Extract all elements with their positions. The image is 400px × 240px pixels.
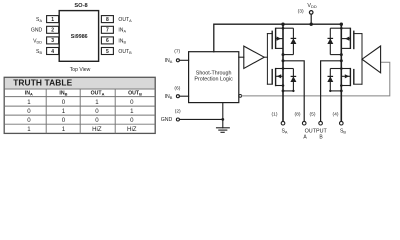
- svg-text:INA: INA: [165, 58, 173, 64]
- svg-text:Protection Logic: Protection Logic: [194, 77, 233, 83]
- node junction gnd: [221, 118, 224, 121]
- svg-text:Top View: Top View: [70, 67, 91, 73]
- wire VDD to rail: [310, 14, 312, 24]
- node junction A phase-diode: [282, 53, 285, 56]
- svg-text:8: 8: [106, 17, 109, 23]
- node GND terminal: [176, 118, 179, 121]
- node bubble box output B path: [239, 95, 242, 98]
- node junction rail-VDD: [310, 23, 313, 26]
- wire box to driver A: [239, 56, 244, 58]
- node junction B diode-bottom: [329, 90, 331, 92]
- row 2: [27, 108, 134, 115]
- package body U1 Si9986: [59, 11, 98, 62]
- wire B column: [340, 24, 342, 121]
- svg-text:(4): (4): [333, 111, 339, 117]
- node junction B source-bottom: [340, 90, 343, 93]
- svg-text:(7): (7): [174, 48, 180, 54]
- transistor Q4 n-channel B low side: [341, 68, 354, 86]
- node junction A ndrain-diode: [282, 67, 285, 70]
- svg-text:VDD: VDD: [307, 3, 316, 9]
- diode D3 body B high: [327, 28, 341, 54]
- wire A column: [282, 24, 284, 121]
- pin 7 box: [101, 26, 113, 33]
- title row gray background: [5, 78, 155, 88]
- transistor Q3 p-channel B high side: [341, 28, 354, 50]
- wire gate bus B: [361, 34, 363, 85]
- node junction rail-A: [281, 23, 284, 26]
- svg-text:OUTPUT: OUTPUT: [305, 129, 328, 135]
- wire A source bottom: [283, 90, 293, 92]
- node INB terminal: [176, 95, 179, 98]
- row 3: [27, 117, 134, 124]
- svg-text:7: 7: [106, 28, 109, 34]
- svg-text:0: 0: [95, 108, 99, 115]
- node junction rail-B: [340, 23, 343, 26]
- node junction B out-tap: [340, 59, 343, 62]
- svg-text:(6): (6): [174, 85, 180, 91]
- wire B diode return: [330, 54, 341, 56]
- diode D2 body A low: [283, 69, 296, 91]
- node SA terminal: [281, 121, 285, 125]
- wire A phase to OUT A: [283, 61, 304, 122]
- table grid lines: [4, 89, 155, 133]
- buffer driver A triangle: [244, 46, 264, 68]
- svg-text:HiZ: HiZ: [127, 126, 137, 133]
- pin 4 box: [47, 48, 59, 55]
- svg-text:INB: INB: [59, 90, 67, 96]
- wire gray cross wire to driver B: [242, 62, 390, 96]
- wire gate lead A high: [267, 33, 272, 35]
- pin 5 box: [101, 48, 113, 55]
- wire box bottom to gnd: [222, 103, 224, 120]
- svg-text:HiZ: HiZ: [92, 126, 102, 133]
- buffer driver B triangle: [362, 46, 381, 73]
- svg-text:2: 2: [51, 28, 54, 34]
- pin 1 box: [47, 16, 59, 23]
- wire gate bus A: [266, 34, 268, 85]
- row 4: [27, 126, 137, 133]
- pin 3 box: [47, 37, 59, 44]
- svg-text:GND: GND: [161, 117, 173, 123]
- node INA terminal: [176, 59, 179, 62]
- svg-text:SA: SA: [281, 129, 287, 135]
- wire VDD rail: [214, 24, 341, 52]
- op-amp box U2 shoot-through logic: [189, 52, 239, 103]
- svg-text:SB: SB: [340, 129, 346, 135]
- wire A diode return: [283, 54, 293, 56]
- node junction A drain-diode: [282, 27, 285, 30]
- svg-text:INA: INA: [25, 90, 33, 96]
- node junction B phase-diode: [340, 53, 343, 56]
- row 1: [27, 99, 134, 106]
- svg-text:3: 3: [51, 38, 54, 44]
- junction dots: [281, 23, 343, 93]
- node junction B drain-diode: [340, 27, 343, 30]
- svg-text:4: 4: [51, 49, 54, 55]
- svg-text:(1): (1): [272, 111, 278, 117]
- svg-text:(3): (3): [298, 9, 304, 15]
- node junction A nsource-stub: [282, 84, 285, 87]
- node junction A diode-bottom: [292, 90, 294, 92]
- svg-text:TRUTH TABLE: TRUTH TABLE: [13, 77, 72, 87]
- svg-text:1: 1: [51, 17, 54, 23]
- node OUTB terminal: [319, 121, 323, 125]
- svg-text:(8): (8): [295, 111, 301, 117]
- wire GND: [180, 118, 223, 120]
- svg-text:SO-8: SO-8: [74, 3, 87, 9]
- svg-text:6: 6: [106, 38, 109, 44]
- wire INA to box: [179, 59, 188, 61]
- wire tip to gate bus A: [264, 56, 267, 58]
- pin 8 box: [101, 16, 113, 23]
- svg-text:0: 0: [95, 117, 99, 124]
- node OUTA terminal: [302, 121, 306, 125]
- svg-text:GND: GND: [31, 28, 43, 34]
- svg-text:5: 5: [106, 49, 109, 55]
- node junction B nsource-stub: [340, 84, 343, 87]
- output terminals: [281, 121, 343, 125]
- svg-text:OUTB: OUTB: [128, 90, 142, 96]
- svg-text:(2): (2): [175, 108, 181, 114]
- diode D4 body B low: [327, 69, 341, 91]
- wire INB to box: [179, 95, 188, 97]
- node SB terminal: [340, 121, 344, 125]
- node junction A out-tap: [282, 59, 285, 62]
- wire B phase to OUT B: [321, 61, 342, 122]
- pin 2 box: [47, 26, 59, 33]
- pin 6 box: [101, 37, 113, 44]
- transistor Q2 n-channel A low side: [272, 68, 283, 86]
- wire B source bottom: [330, 90, 341, 92]
- wire gate lead B low: [354, 83, 362, 85]
- wire gate lead B high: [354, 33, 362, 35]
- svg-text:1: 1: [95, 99, 99, 106]
- wire gate lead A low: [267, 83, 272, 85]
- svg-text:OUTA: OUTA: [91, 90, 105, 96]
- svg-text:Si9986: Si9986: [71, 34, 88, 40]
- svg-text:(5): (5): [310, 111, 316, 117]
- ground: [217, 119, 230, 132]
- svg-text:INB: INB: [165, 94, 173, 100]
- table outer frame: [4, 77, 155, 133]
- node VDD terminal: [309, 11, 313, 15]
- diode D1 body A high: [283, 28, 296, 54]
- node junction A source-bottom: [282, 90, 285, 93]
- transistor Q1 p-channel A high side: [272, 28, 283, 50]
- node junction B ndrain-diode: [340, 67, 343, 70]
